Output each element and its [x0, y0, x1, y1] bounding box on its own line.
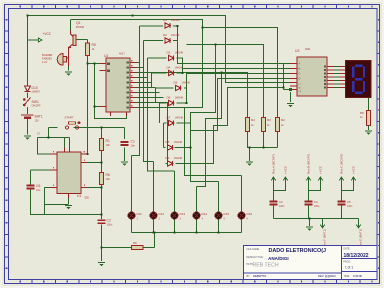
svg-text:+VCC: +VCC [43, 32, 52, 36]
svg-text:ON/OFF: ON/OFF [32, 105, 42, 108]
svg-text:+VCC: +VCC [352, 165, 356, 174]
svg-text:R8: R8 [360, 111, 364, 115]
svg-text:10k: 10k [106, 143, 111, 147]
svg-text:BC548: BC548 [76, 25, 84, 29]
svg-text:1N4148: 1N4148 [182, 82, 191, 85]
svg-text:U3: U3 [295, 49, 299, 53]
svg-text:D: D [299, 77, 301, 81]
svg-text:TIME:: TIME: [344, 275, 351, 278]
svg-text:10n: 10n [131, 144, 136, 148]
svg-text:10u: 10u [36, 188, 41, 192]
svg-text:REB TECH: REB TECH [253, 262, 279, 268]
svg-text:+VCC: +VCC [319, 165, 323, 174]
svg-text:D9: D9 [166, 156, 170, 160]
svg-text:10k: 10k [106, 177, 111, 181]
svg-text:D2: D2 [163, 33, 167, 37]
svg-text:C1: C1 [131, 140, 135, 144]
svg-text:Res B (BC547): Res B (BC547) [307, 154, 311, 174]
svg-text:B: B [299, 67, 301, 71]
svg-text:D10: D10 [32, 86, 38, 90]
svg-text:R5: R5 [92, 43, 96, 47]
svg-text:BY:: BY: [247, 275, 251, 278]
svg-text:D4: D4 [167, 66, 171, 70]
svg-text:100n: 100n [347, 205, 353, 208]
svg-text:FA80/80: FA80/80 [42, 57, 52, 61]
svg-text:1.2V: 1.2V [42, 60, 48, 64]
svg-text:Res F (BAT1): Res F (BAT1) [323, 229, 327, 247]
svg-text:R3: R3 [267, 118, 271, 122]
svg-text:ANA/DIGI: ANA/DIGI [268, 256, 289, 261]
svg-text:1N4148: 1N4148 [175, 117, 184, 120]
svg-text:D5: D5 [174, 81, 178, 85]
svg-text:D11: D11 [137, 212, 143, 216]
svg-text:555: 555 [85, 196, 90, 200]
svg-text:DADO ELETRONICO(J: DADO ELETRONICO(J [269, 248, 327, 254]
svg-text:D16: D16 [247, 212, 253, 216]
svg-text:A: A [299, 62, 301, 66]
svg-text:9:30:0K: 9:30:0K [353, 274, 362, 278]
svg-text:1N4007: 1N4007 [32, 91, 41, 94]
svg-text:REV: @@REV: REV: @@REV [318, 274, 336, 278]
svg-text:BUZZER: BUZZER [42, 53, 53, 57]
svg-text:C3: C3 [279, 200, 283, 204]
svg-text:C4: C4 [314, 200, 318, 204]
svg-text:1N4148: 1N4148 [175, 52, 184, 55]
svg-text:1 of 1: 1 of 1 [345, 265, 353, 269]
svg-text:D3: D3 [167, 51, 171, 55]
svg-text:1N4148: 1N4148 [174, 157, 183, 160]
svg-text:D1: D1 [163, 18, 167, 22]
svg-text:FILE NAME:: FILE NAME: [247, 248, 261, 251]
svg-text:D8: D8 [166, 140, 170, 144]
svg-text:4017: 4017 [119, 52, 125, 56]
svg-text:1N4148: 1N4148 [171, 19, 180, 22]
svg-text:BAT1: BAT1 [35, 115, 43, 119]
svg-text:18/12/2022: 18/12/2022 [344, 253, 369, 259]
svg-text:1N4148: 1N4148 [175, 67, 184, 70]
svg-text:100n: 100n [279, 205, 285, 208]
svg-text:4511: 4511 [305, 47, 311, 51]
svg-text:R2: R2 [281, 118, 285, 122]
svg-text:START: START [65, 116, 74, 120]
svg-text:C6: C6 [36, 184, 40, 188]
svg-text:1N4148: 1N4148 [171, 34, 180, 37]
svg-text:DESIGN TITLE:: DESIGN TITLE: [247, 256, 264, 259]
svg-text:1N4148: 1N4148 [174, 141, 183, 144]
svg-text:REB9PITO: REB9PITO [253, 274, 266, 278]
svg-text:+VCC: +VCC [284, 165, 288, 174]
svg-text:D14: D14 [202, 212, 208, 216]
svg-text:C5: C5 [347, 200, 351, 204]
svg-text:Q1: Q1 [76, 21, 81, 25]
svg-text:DATE:: DATE: [344, 248, 351, 251]
svg-text:12V: 12V [35, 120, 40, 123]
svg-text:Res A (BC547): Res A (BC547) [272, 154, 276, 174]
svg-text:C7: C7 [37, 132, 41, 136]
svg-text:D6: D6 [167, 96, 171, 100]
svg-text:PAGE:: PAGE: [344, 261, 351, 264]
svg-text:D7: D7 [167, 116, 171, 120]
svg-text:R6: R6 [106, 173, 110, 177]
svg-text:R1: R1 [106, 139, 110, 143]
svg-text:U1: U1 [77, 194, 81, 198]
svg-text:SW1: SW1 [32, 100, 39, 104]
svg-text:D15: D15 [224, 212, 230, 216]
svg-text:D13: D13 [180, 212, 186, 216]
svg-text:Res E (BAT1): Res E (BAT1) [359, 229, 363, 247]
svg-text:R4: R4 [251, 118, 255, 122]
svg-text:Res C (BC547): Res C (BC547) [340, 154, 344, 174]
svg-text:R9: R9 [133, 241, 137, 245]
svg-text:C2: C2 [107, 219, 111, 223]
svg-text:100n: 100n [314, 205, 320, 208]
svg-text:C: C [299, 72, 301, 76]
svg-text:D12: D12 [159, 212, 165, 216]
svg-text:1N4148: 1N4148 [175, 97, 184, 100]
svg-text:U2: U2 [104, 54, 108, 58]
svg-text:100n: 100n [107, 223, 113, 227]
